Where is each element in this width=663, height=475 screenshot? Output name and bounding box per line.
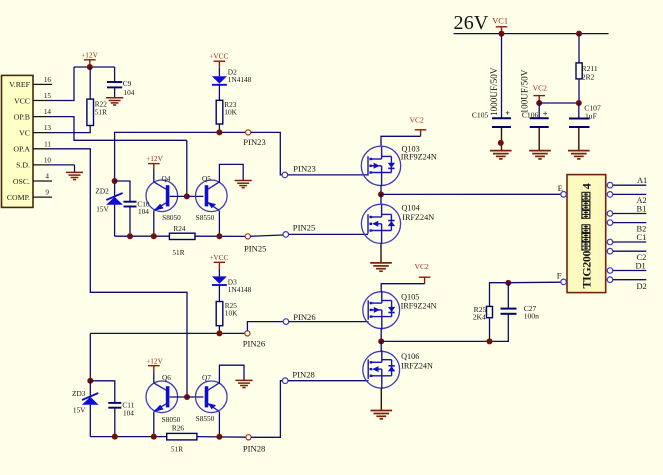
svg-text:Q7: Q7	[202, 373, 211, 382]
svg-text:VC2: VC2	[415, 262, 430, 271]
wire Q6 collector lead	[153, 372, 155, 383]
svg-text:IRFZ24N: IRFZ24N	[401, 361, 433, 370]
svg-text:10K: 10K	[224, 107, 237, 116]
power +VCC (lower)	[209, 253, 228, 269]
mosfet Q106 IRFZ24N	[363, 350, 433, 389]
diode D3 1N4148	[212, 276, 252, 293]
svg-text:PIN28: PIN28	[243, 444, 265, 454]
node: Q103/Q104 midpoint	[378, 191, 384, 197]
wire pin14 OP.B route down	[52, 117, 187, 141]
capacitor C11	[108, 400, 134, 436]
port PIN28 (red, net side)	[243, 435, 265, 454]
IC U1 pin name VCC	[14, 96, 30, 105]
wire Q5 emitter lead down	[218, 211, 220, 237]
node: R25 on rail	[216, 330, 222, 336]
svg-text:2K4: 2K4	[473, 313, 486, 322]
svg-text:C105: C105	[472, 110, 489, 119]
svg-text:C1: C1	[637, 233, 647, 242]
wire C11 top lead	[90, 381, 115, 403]
svg-text:V.REF: V.REF	[9, 80, 31, 89]
svg-text:E: E	[558, 183, 563, 193]
svg-text:D2: D2	[637, 282, 647, 291]
ground (C107)	[568, 151, 590, 159]
node: junction R23/PIN23 row	[216, 129, 222, 135]
resistor R25b 2K4	[473, 305, 493, 322]
svg-text:Q6: Q6	[162, 373, 171, 382]
svg-text:D1: D1	[636, 262, 646, 271]
capacitor C107 1uF	[569, 104, 601, 128]
IC U1 pin name VC	[19, 129, 30, 138]
svg-text:VCC: VCC	[14, 96, 30, 105]
node: junction +12V/R22/C9	[87, 64, 93, 70]
svg-text:PIN25: PIN25	[293, 223, 315, 233]
IC U1 pin name S.D.	[16, 161, 30, 170]
wire bases drop (upper pair)	[186, 140, 188, 196]
connector pin D1	[607, 262, 646, 274]
diode D2 1N4148	[212, 67, 252, 85]
wire Q7 base lead	[187, 396, 203, 398]
svg-text:R26: R26	[172, 424, 185, 433]
svg-text:104: 104	[124, 88, 135, 97]
resistor R24 51R	[169, 224, 195, 257]
node: Q6 emitter on lower rail	[151, 434, 157, 440]
wire 26V top rail	[454, 33, 609, 35]
svg-text:S8550: S8550	[196, 414, 215, 423]
node: Q105/Q106 midpoint	[378, 338, 384, 344]
node: R25b on F rail	[487, 338, 493, 344]
svg-text:OSC.: OSC.	[13, 177, 30, 186]
wire Q106 source to ground	[380, 388, 382, 410]
ground (pin10 S.D.)	[66, 172, 83, 179]
node: C10 on rail	[127, 233, 133, 239]
power VC2 (main)	[533, 84, 548, 103]
node: Q5 emitter on rail	[216, 233, 222, 239]
zener diode ZD3 15V	[72, 389, 99, 437]
wire R211 top lead	[578, 34, 580, 63]
resistor R211 2R2	[576, 63, 598, 81]
svg-text:COMP.: COMP.	[7, 193, 30, 202]
wire C106 bottom lead	[538, 127, 540, 150]
pin 14 stub	[33, 108, 52, 116]
wire Q103 source to mid node	[380, 185, 382, 194]
pin 11 stub	[33, 140, 52, 148]
capacitor C10	[124, 199, 150, 236]
port F	[557, 270, 567, 284]
svg-text:Q105: Q105	[401, 292, 419, 301]
svg-text:11: 11	[44, 140, 51, 148]
svg-text:VC1: VC1	[492, 17, 508, 26]
svg-text:Q104: Q104	[402, 204, 420, 213]
connector label TIG200 (rotated)	[580, 250, 594, 288]
connector pin B2	[607, 220, 646, 234]
wire F net to R25/C27	[381, 314, 508, 341]
wire Q6 emitter lead down	[153, 412, 155, 437]
svg-text:PIN25: PIN25	[244, 243, 266, 253]
pin 13 stub	[33, 124, 52, 132]
wire R23 bottom lead	[218, 124, 220, 132]
wire upper rail right segment	[195, 235, 245, 237]
svg-text:A1: A1	[637, 176, 647, 185]
wire rail corner down to ZD3 node	[89, 333, 91, 380]
svg-text:14: 14	[44, 108, 52, 116]
wire C107 top lead	[578, 103, 580, 118]
mosfet Q105 IRF9Z24N	[363, 291, 437, 330]
power +12V (lower pair)	[146, 356, 163, 372]
wire upper rail left segment	[115, 235, 170, 237]
wire PIN25 to Q104 gate	[289, 233, 368, 235]
svg-text:IRF9Z24N: IRF9Z24N	[401, 153, 437, 162]
wire Q7 emitter lead down	[218, 412, 220, 437]
svg-text:IRF9Z24N: IRF9Z24N	[401, 301, 437, 310]
svg-text:B1: B1	[637, 204, 647, 213]
wire pin15 VCC to +12V node	[52, 67, 74, 101]
wire Q5 base lead	[187, 195, 204, 197]
svg-text:1uF: 1uF	[585, 112, 597, 121]
wire Q105 source to mid node	[380, 329, 382, 342]
wire VC2 to Q105 drain	[381, 284, 424, 293]
connector pin B1	[607, 204, 646, 216]
wire C9 top lead	[114, 67, 116, 82]
wire PIN28 to Q106 gate	[288, 380, 369, 382]
zener diode ZD2 15V	[95, 187, 122, 237]
svg-text:ZD3: ZD3	[72, 389, 86, 398]
capacitor C105 1000UF/50V	[472, 67, 511, 127]
26V annotation	[454, 12, 489, 34]
svg-text:+VCC: +VCC	[209, 253, 228, 262]
svg-text:51R: 51R	[171, 444, 183, 453]
wire lower rail left segment	[90, 436, 166, 438]
resistor R22 51R	[87, 99, 107, 125]
node: Q7 emitter on lower rail	[216, 434, 222, 440]
svg-text:C9: C9	[123, 79, 132, 88]
svg-text:ZD2: ZD2	[95, 187, 109, 196]
wire VC2 row to C107 column	[539, 102, 579, 104]
wire E net to connector	[381, 193, 561, 195]
wire lower pin rail	[90, 332, 245, 334]
wire mid node to Q106 drain	[380, 341, 382, 351]
svg-text:+12V: +12V	[81, 50, 98, 59]
svg-text:51R: 51R	[95, 108, 107, 117]
port PIN23 (blue, gate side)	[282, 164, 316, 178]
wire PIN26 jog link	[247, 322, 283, 331]
svg-text:51R: 51R	[172, 248, 184, 257]
svg-text:+VCC: +VCC	[209, 52, 228, 61]
node: C105 ground stem	[498, 140, 504, 146]
resistor R26 51R	[167, 424, 197, 454]
connector pin A1	[607, 176, 647, 188]
wire pin11 OP.A long route to lower pair	[52, 149, 187, 397]
power VC2 (Q103)	[410, 115, 427, 136]
wire PIN25 link	[250, 235, 283, 236]
port PIN23 (red, net side)	[243, 130, 265, 147]
svg-text:100n: 100n	[524, 311, 539, 320]
ground (Q5 collector)	[235, 181, 252, 188]
wire mid node to Q104 drain	[380, 194, 382, 204]
svg-text:1N4148: 1N4148	[228, 285, 252, 294]
wire PIN26 to Q105 gate	[289, 321, 369, 323]
svg-text:OP.B: OP.B	[14, 112, 30, 121]
wire PIN28 jog link up	[251, 381, 282, 438]
wire C10 top lead	[115, 181, 130, 201]
node: ZD3/C11 junction	[87, 378, 93, 384]
wire C106 top lead	[538, 103, 540, 118]
connector label 4 (rotated)	[580, 183, 594, 189]
wire D3 to R25	[218, 285, 220, 302]
wire Q4 collector lead	[153, 170, 155, 183]
power +VCC (upper)	[209, 52, 228, 68]
svg-text:9: 9	[45, 189, 49, 197]
node: ZD2/C10 junction	[112, 178, 118, 184]
wire R22 top lead	[89, 67, 91, 99]
capacitor C27 100n	[501, 283, 540, 321]
wire F-port feed	[508, 281, 561, 284]
svg-text:R24: R24	[173, 224, 186, 233]
node: VC1/C105 junction	[499, 31, 505, 37]
node: R211/C107 junction	[576, 100, 582, 106]
port PIN25 (blue, gate side)	[283, 223, 315, 238]
ground (C106)	[529, 151, 551, 159]
svg-text:OP.A: OP.A	[13, 145, 30, 154]
node: VC2/C106 junction	[536, 100, 542, 106]
IC U1 pin name OP.A	[13, 145, 30, 154]
power +12V (upper left)	[81, 50, 98, 66]
svg-text:+: +	[505, 109, 510, 118]
svg-text:S8050: S8050	[162, 415, 181, 424]
transistor Q7 S8550	[196, 373, 228, 423]
svg-text:Q106: Q106	[401, 352, 419, 361]
svg-text:15V: 15V	[96, 204, 109, 213]
pin 9 stub	[33, 189, 52, 197]
svg-text:16: 16	[44, 76, 52, 84]
svg-text:10: 10	[44, 157, 52, 165]
node: C27 top junction	[505, 280, 511, 286]
node: R211 branch junction	[576, 31, 582, 37]
connector label CJK glyphs (pseudo)	[582, 192, 590, 250]
wire Q6 base lead	[170, 396, 187, 398]
wire lower rail right segment	[197, 436, 246, 439]
wire D3 anode lead	[218, 269, 220, 277]
svg-text:PIN28: PIN28	[292, 370, 314, 380]
power +12V (upper pair)	[146, 154, 163, 170]
wire Q5 collector to ground	[219, 164, 243, 182]
port PIN26 (blue, gate side)	[283, 312, 316, 325]
svg-text:PIN26: PIN26	[243, 338, 266, 348]
wire PIN23 to Q103 gate	[288, 174, 368, 176]
IC U1 pin name COMP.	[7, 193, 30, 202]
wire C105 top lead	[501, 34, 503, 118]
ground (C9)	[106, 98, 123, 105]
svg-text:4: 4	[580, 183, 594, 189]
svg-text:15: 15	[44, 92, 52, 100]
port PIN26 (red, net side)	[243, 331, 266, 349]
ground (Q7 collector)	[235, 380, 252, 387]
node: Q4/Q5 base junction	[184, 193, 190, 199]
port E	[558, 183, 567, 197]
svg-text:+: +	[543, 109, 548, 118]
mosfet Q103 IRF9Z24N	[361, 145, 437, 186]
svg-text:26V: 26V	[454, 12, 489, 34]
wire pin10 S.D. to ground	[52, 165, 75, 172]
IC U1 pin name OSC.	[13, 177, 30, 186]
wire Q4 base lead	[170, 195, 187, 197]
svg-text:VC2: VC2	[533, 84, 548, 93]
wire R25b top corner	[490, 283, 509, 307]
wire R25 bottom lead	[218, 326, 220, 334]
svg-text:15V: 15V	[73, 406, 86, 415]
node: Q4 emitter on rail	[151, 233, 157, 239]
resistor R25 10K	[216, 301, 238, 326]
wire ZD3 cathode lead	[89, 381, 91, 397]
node: Q6/Q7 base junction	[184, 394, 190, 400]
transistor Q5 S8550	[196, 174, 228, 222]
svg-text:+12V: +12V	[146, 356, 163, 365]
svg-text:1N4148: 1N4148	[228, 75, 252, 84]
power VC1	[492, 17, 508, 34]
wire D2 anode lead	[218, 68, 220, 77]
connector pin A2	[607, 192, 647, 205]
wire C107 bottom lead	[578, 127, 580, 150]
wire Q4 emitter lead down	[153, 211, 155, 237]
svg-text:+12V: +12V	[146, 154, 163, 163]
capacitor C106 100UF/50V	[519, 69, 548, 127]
svg-text:F: F	[557, 270, 562, 280]
wire R22 bottom to pin13 VC	[52, 126, 90, 133]
wire branch up to PIN23 row	[115, 132, 246, 181]
svg-text:Q4: Q4	[162, 174, 171, 183]
pin 15 stub	[33, 92, 52, 100]
connector J1 TIG200 driver board box	[567, 175, 606, 293]
svg-text:104: 104	[138, 207, 149, 216]
ground (C105)	[490, 151, 512, 159]
pin 10 stub	[33, 157, 52, 165]
capacitor C9	[107, 79, 135, 98]
svg-text:100UF/50V: 100UF/50V	[519, 69, 529, 113]
wire R211 bottom lead	[578, 79, 580, 103]
wire Q104 source to ground	[380, 243, 382, 262]
ground (Q104 source)	[370, 263, 392, 271]
svg-text:PIN23: PIN23	[293, 164, 315, 174]
wire C105 bottom lead	[501, 127, 503, 150]
wire D2 to R23	[218, 85, 220, 101]
svg-text:S8050: S8050	[162, 213, 181, 222]
wire R25b bottom lead	[489, 318, 491, 342]
svg-text:4: 4	[45, 173, 49, 181]
IC U1 pin name OP.B	[14, 112, 30, 121]
power VC2 (Q105)	[415, 262, 431, 284]
op-amp/PWM IC U1 box	[2, 75, 34, 207]
svg-text:1000UF/50V: 1000UF/50V	[489, 67, 499, 116]
transistor Q6 S8050	[146, 373, 181, 424]
svg-text:S8550: S8550	[196, 213, 215, 222]
resistor R23 10K	[216, 100, 237, 124]
port PIN25 (red, net side)	[244, 234, 266, 254]
wire Q7 collector to ground	[219, 365, 244, 383]
port PIN28 (blue, gate side)	[282, 370, 314, 384]
wire ZD2 cathode lead	[114, 181, 116, 197]
connector pin C2	[607, 248, 646, 262]
IC U1 pin name V.REF	[9, 80, 31, 89]
pin 16 stub	[33, 76, 52, 84]
node: C11 on lower rail	[112, 434, 118, 440]
transistor Q4 S8050	[146, 174, 181, 222]
connector pin D2	[607, 277, 647, 291]
wire PIN23 jog to gate port	[251, 132, 282, 175]
svg-text:TIG200: TIG200	[580, 250, 594, 288]
ground (Q106 source)	[371, 411, 393, 419]
svg-text:104: 104	[123, 408, 134, 417]
connector pin C1	[607, 233, 646, 245]
svg-text:IRFZ24N: IRFZ24N	[402, 213, 434, 222]
svg-text:2R2: 2R2	[582, 72, 595, 81]
svg-text:PIN23: PIN23	[243, 137, 265, 147]
wire VC2 to Q103 drain	[381, 136, 421, 146]
svg-text:13: 13	[44, 124, 52, 132]
svg-text:S.D.: S.D.	[16, 161, 30, 170]
svg-text:PIN26: PIN26	[293, 312, 316, 322]
svg-text:VC2: VC2	[410, 115, 425, 124]
wire +12V node horizontal	[74, 66, 115, 68]
mosfet Q104 IRFZ24N	[361, 204, 434, 244]
svg-text:VC: VC	[19, 129, 30, 138]
svg-text:Q5: Q5	[202, 174, 211, 183]
svg-text:10K: 10K	[225, 309, 238, 318]
pin 4 stub	[33, 173, 52, 181]
